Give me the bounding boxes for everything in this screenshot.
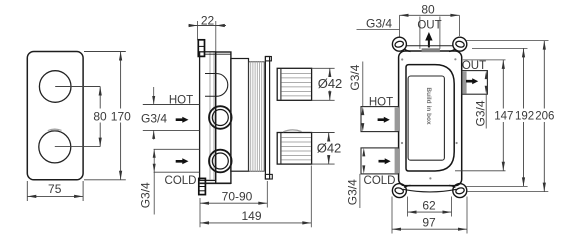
dimension 62 [408, 197, 452, 217]
svg-text:206: 206 [535, 111, 554, 123]
svg-text:COLD: COLD [364, 175, 396, 187]
box ear tab top (behind plate) [198, 40, 204, 57]
svg-text:75: 75 [48, 182, 62, 196]
svg-text:80: 80 [421, 3, 435, 17]
build-in-box label panel [408, 76, 444, 160]
cap lens on bottom pipe [283, 130, 301, 132]
svg-text:G3/4: G3/4 [346, 179, 360, 205]
cartridge dome profile [205, 74, 228, 97]
dimension 192 [466, 48, 534, 186]
leader from top knob center [55, 86, 100, 88]
knob top circle [39, 71, 71, 103]
dimension 80 (knob spacing) [93, 87, 108, 147]
top outlet port (gray) [422, 48, 440, 52]
box opening rounded rect [406, 65, 454, 171]
fixing ear bottom-left [392, 184, 406, 198]
dimension 149 (total depth) [200, 166, 311, 228]
box mid section [231, 59, 249, 172]
OUT label top [417, 17, 441, 49]
HOT inlet stub (rear view) [348, 62, 399, 132]
svg-text:Ø42: Ø42 [318, 76, 343, 91]
cold inlet port circles (side) [209, 150, 232, 173]
fixing ear top-left [392, 37, 406, 51]
fixing ear bottom-right [453, 184, 467, 198]
G3/4 label for top outlet [357, 16, 400, 30]
svg-text:97: 97 [422, 215, 436, 229]
knob bottom circle [39, 131, 71, 163]
svg-text:G3/4: G3/4 [139, 182, 153, 208]
box body outline [399, 49, 462, 188]
dimension 147 [455, 60, 513, 171]
leader from bottom knob center [55, 146, 100, 148]
COLD inlet stub (rear view) [346, 148, 399, 208]
svg-text:Ø42: Ø42 [317, 141, 342, 156]
COLD inlet annotation (side view) [139, 149, 200, 214]
dimension 75 (plate width) [27, 181, 83, 201]
rim screw dots [401, 58, 458, 179]
bottom supply pipe with protection cap [277, 133, 311, 165]
svg-text:G3/4: G3/4 [366, 16, 392, 30]
OUT side stub (rear view) [462, 60, 488, 129]
trim plate outline [27, 52, 83, 180]
dimension 206 [467, 41, 556, 192]
box ear tab bottom (behind plate) [199, 178, 206, 194]
svg-text:149: 149 [241, 209, 261, 223]
dimension 170 (plate height) [84, 52, 132, 180]
svg-text:80: 80 [93, 110, 107, 124]
plate side profile [200, 52, 216, 181]
hot inlet port circles (side) [209, 106, 232, 129]
dimension D42 top [312, 68, 343, 100]
dimension 80 (top fixing holes) [400, 3, 460, 37]
svg-text:COLD: COLD [165, 175, 197, 187]
HOT flow arrow (side view) [176, 117, 189, 123]
svg-text:G3/4: G3/4 [474, 100, 488, 126]
COLD flow arrow (side view) [176, 158, 189, 164]
dimension D42 bottom [312, 133, 342, 165]
svg-text:G3/4: G3/4 [348, 64, 362, 90]
knob bottom lever lens [48, 129, 62, 131]
valve body block [200, 52, 231, 183]
svg-text:70-90: 70-90 [222, 189, 253, 203]
svg-text:OUT: OUT [417, 19, 441, 31]
HOT inlet annotation (side view) [140, 87, 200, 140]
svg-text:192: 192 [515, 111, 534, 123]
fixing ear top-right [453, 37, 467, 51]
svg-text:Build in box: Build in box [425, 87, 432, 125]
dimension 97 [392, 197, 467, 234]
top supply pipe with protection cap [277, 68, 311, 100]
dimension 22 (plate depth) [189, 13, 227, 51]
svg-text:170: 170 [111, 110, 131, 124]
svg-text:G3/4: G3/4 [141, 111, 167, 125]
svg-text:62: 62 [422, 198, 436, 212]
OUT top flow arrow [425, 32, 432, 48]
svg-text:147: 147 [494, 111, 513, 123]
dimension 70-90 (installation depth) [200, 181, 267, 208]
box rear rim lines between ears [403, 46, 457, 192]
bellows hatched section [249, 62, 265, 171]
wall flange plate [265, 57, 272, 180]
